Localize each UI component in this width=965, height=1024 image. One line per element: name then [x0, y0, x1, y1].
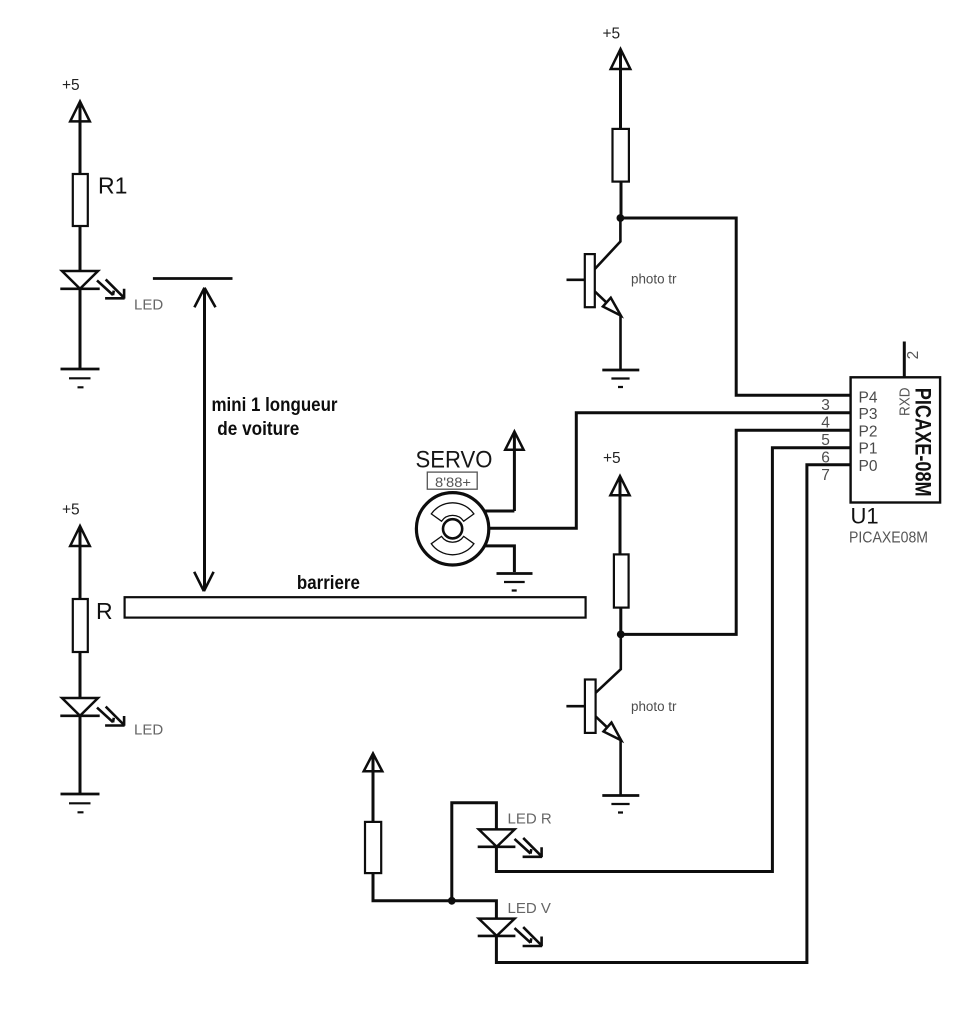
ground Q2	[602, 796, 639, 813]
chip U1 PICAXE-08M	[851, 377, 941, 502]
svg-text:P4: P4	[859, 389, 878, 406]
svg-text:8'88+: 8'88+	[435, 475, 471, 490]
LED R	[478, 811, 552, 858]
svg-text:photo tr: photo tr	[631, 699, 677, 714]
ground top-left	[61, 369, 100, 387]
svg-text:PICAXE08M: PICAXE08M	[849, 530, 928, 547]
svg-text:2: 2	[905, 351, 922, 360]
svg-text:R: R	[96, 598, 113, 624]
resistor R1	[73, 173, 128, 227]
svg-text:PICAXE-08M: PICAXE-08M	[911, 388, 936, 497]
wire LED2 to ground	[79, 716, 82, 793]
svg-text:3: 3	[821, 397, 830, 414]
wire node1 to P4	[620, 218, 850, 395]
wire R5 to junction	[373, 873, 496, 919]
svg-text:de voiture: de voiture	[217, 418, 299, 440]
wire servo middle to P3	[489, 413, 851, 529]
svg-text:R1: R1	[98, 173, 127, 199]
LED D1	[60, 271, 163, 314]
svg-text:P3: P3	[859, 406, 878, 423]
svg-text:+5: +5	[62, 77, 80, 94]
wire servo bottom to ground	[485, 546, 515, 572]
svg-text:U1: U1	[851, 504, 879, 529]
wire feed LED R	[452, 803, 497, 901]
servo display 8'88+	[427, 472, 477, 490]
svg-text:P0: P0	[859, 458, 878, 475]
barrier bar	[125, 597, 586, 617]
svg-text:mini 1 longueur: mini 1 longueur	[212, 394, 338, 416]
svg-text:+5: +5	[603, 26, 621, 43]
svg-text:LED: LED	[134, 722, 163, 739]
resistor R4	[614, 554, 629, 607]
servo motor M1	[416, 493, 488, 565]
wire node2 to P2	[621, 430, 851, 634]
resistor R5	[365, 822, 381, 873]
wire LED R to P1	[496, 448, 850, 872]
measure arrow (vertical double arrow)	[194, 288, 215, 592]
svg-text:4: 4	[821, 414, 830, 431]
transistor Q2 photo tr	[566, 634, 677, 794]
svg-text:P2: P2	[859, 424, 878, 441]
power +5 arrow servo	[505, 432, 523, 512]
power +5 symbol top-left	[62, 77, 90, 174]
resistor R	[73, 598, 113, 652]
transistor Q1 photo tr	[567, 218, 678, 369]
svg-text:6: 6	[821, 449, 830, 466]
node junction dot 3	[448, 897, 456, 905]
node junction dot 2	[617, 631, 625, 639]
measure line top bar	[153, 277, 233, 280]
wire R1 to LED	[79, 226, 82, 272]
wire servo top to +5	[485, 510, 515, 513]
power +5 symbol bottom	[364, 754, 383, 823]
svg-text:LED V: LED V	[508, 900, 551, 917]
pin 2 wire	[904, 342, 922, 378]
svg-text:+5: +5	[62, 502, 80, 519]
label mini 1 longueur de voiture	[212, 394, 338, 440]
wire LED to ground	[79, 289, 82, 368]
svg-text:LED: LED	[134, 297, 163, 314]
svg-text:7: 7	[821, 467, 830, 484]
svg-text:+5: +5	[603, 450, 621, 467]
svg-text:5: 5	[821, 432, 830, 449]
wire R4 to node2	[619, 608, 622, 635]
svg-text:photo tr: photo tr	[631, 272, 677, 287]
wire R3 to node	[620, 182, 623, 218]
power +5 symbol middle	[603, 450, 630, 555]
ground servo	[497, 574, 533, 591]
svg-text:SERVO: SERVO	[416, 447, 493, 474]
svg-text:barriere: barriere	[297, 572, 360, 594]
wire R to LED2	[79, 651, 82, 699]
resistor R3	[613, 129, 629, 182]
LED V	[478, 900, 551, 947]
svg-text:LED R: LED R	[508, 811, 552, 828]
power +5 symbol bottom-left	[62, 502, 90, 600]
wire LED V to P0	[496, 465, 850, 963]
power +5 symbol top-middle	[603, 26, 631, 130]
ground Q1	[602, 370, 639, 387]
ground bottom-left	[61, 794, 100, 812]
svg-text:P1: P1	[859, 441, 878, 458]
LED D2	[60, 698, 163, 739]
node junction dot 1	[617, 214, 625, 222]
